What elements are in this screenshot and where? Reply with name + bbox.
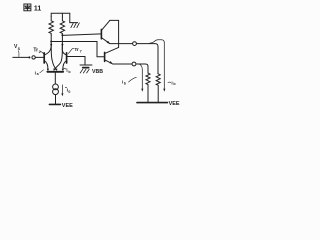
emitter common bar [47, 71, 63, 73]
label ib left with leader [122, 77, 137, 85]
svg-text:Tr: Tr [33, 47, 38, 53]
label ia [35, 70, 44, 76]
VEE rail (bottom right) [137, 102, 167, 104]
input junction dot [28, 56, 30, 58]
transistor Tr4 (lower output follower) [105, 47, 119, 64]
Tr2 emitter curve 2 (inner crossing, from node A with arrow) [51, 45, 57, 71]
resistor RL2 (right collector load) [60, 17, 64, 36]
svg-text:0: 0 [68, 90, 70, 94]
wire output1 from Tr3 emitter [110, 43, 133, 45]
label ib right with tilde leader [168, 80, 177, 86]
Tr2 collector curve to node A2 [44, 45, 51, 55]
wire current source to VEE bar [55, 95, 57, 105]
label VEE (right) [169, 101, 180, 107]
Tr2 emitter curve 1 (outer, with arrow) [44, 61, 49, 72]
wire bar to current source [54, 72, 56, 84]
node B2 dot collector-right [61, 44, 63, 46]
label Tr2 [33, 47, 43, 54]
current source I0 (double circle) [53, 84, 59, 95]
current annotation arrow ib left [139, 64, 143, 92]
wire top bridge joining RL1 RL2 to ground [51, 13, 70, 22]
node B junction dot (wire1 tap) [61, 34, 63, 36]
label Vs (input source) [14, 44, 21, 56]
label VBB [92, 69, 103, 75]
label I0 with arrow [61, 85, 70, 96]
input wire [13, 56, 29, 58]
svg-text:Tr: Tr [74, 47, 79, 53]
wire terminal to Tr2 base [35, 56, 44, 58]
Tr1 emitter curve 1 (outer, with arrow) [62, 61, 67, 72]
wire RL2 bottom lead to node B [61, 35, 63, 45]
svg-text:VEE: VEE [62, 103, 73, 109]
resistor R3 (right emitter load) [156, 74, 160, 103]
wire output2 to R4 top [136, 64, 148, 73]
output terminal 2 (open circle) [132, 62, 136, 66]
svg-text:2: 2 [39, 50, 41, 54]
transistor Tr3 (upper output follower) [101, 20, 110, 44]
Tr1 collector curve to node B2 [62, 45, 66, 55]
transistor Tr2 (left of diff pair) base bar [43, 53, 45, 63]
VEE terminal bar (center) [49, 103, 60, 105]
svg-text:VBB: VBB [92, 69, 103, 75]
battery VBB [80, 65, 92, 68]
label Tr7 [68, 47, 81, 54]
wire w2: node A right then down to base of Tr4 [51, 42, 104, 57]
Tr1 emitter curve 2 (inner crossing, from node B with arrow) [54, 45, 63, 71]
ground (below VBB battery) [80, 69, 89, 73]
resistor R4 (left emitter load) [146, 73, 150, 103]
current annotation arrow ib right [150, 40, 166, 92]
label ib (pair) [64, 68, 71, 74]
output terminal 1 (open circle) [133, 42, 137, 46]
ground (top, signal ground) [70, 23, 80, 28]
wire output2 from Tr4 emitter [113, 63, 133, 65]
wire Tr1 base to VBB [67, 57, 85, 66]
node A junction dot (wire2 tap) [50, 41, 52, 43]
wire Tr3 collector bracket [110, 20, 119, 47]
transistor Tr1 (right of diff pair) base bar [66, 53, 68, 63]
svg-text:11: 11 [34, 6, 42, 13]
label VEE (center) [62, 103, 73, 109]
wire output1 to R3 top [136, 44, 158, 74]
svg-text:7: 7 [80, 49, 82, 53]
input terminal (open circle) [32, 56, 35, 59]
svg-text:VEE: VEE [169, 101, 180, 107]
title Fig 11 (zu 11) [24, 4, 42, 13]
wire w1: node B to base of Tr3 [62, 34, 101, 36]
wire RL1 bottom lead to node A [50, 35, 52, 45]
resistor RL1 (left collector load) [49, 17, 53, 36]
node A2 dot collector-left [50, 44, 52, 46]
